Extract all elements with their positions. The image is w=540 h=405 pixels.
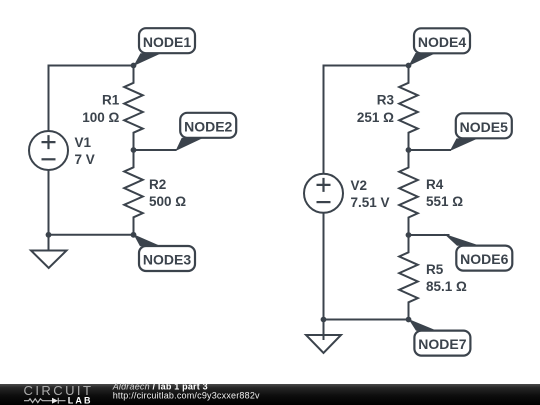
tail NODE4 xyxy=(409,53,437,66)
resistor R4 xyxy=(399,150,418,235)
svg-text:NODE3: NODE3 xyxy=(143,252,191,268)
value label R2 xyxy=(149,177,186,209)
junction node NODE6 xyxy=(406,232,412,238)
junction node NODE7 xyxy=(406,317,412,323)
tail NODE3 xyxy=(134,234,162,246)
svg-text:R3: R3 xyxy=(377,93,395,108)
tail NODE5 xyxy=(450,138,478,151)
CircuitLab logo schematic squiggle xyxy=(24,398,66,404)
wire V1 bottom to ground rail xyxy=(49,171,134,235)
ground (left) xyxy=(31,235,67,268)
node NODE6 label xyxy=(456,246,512,271)
junction node NODE3 xyxy=(131,232,137,238)
svg-text:7.51 V: 7.51 V xyxy=(351,195,390,210)
svg-text:R4: R4 xyxy=(426,177,444,192)
tail NODE6 xyxy=(444,234,480,246)
tail NODE7 xyxy=(409,319,438,331)
junction node NODE5 xyxy=(406,147,412,153)
svg-text:http://circuitlab.com/c9y3cxxe: http://circuitlab.com/c9y3cxxer882v xyxy=(113,391,260,401)
resistor R5 xyxy=(399,235,418,320)
svg-text:NODE2: NODE2 xyxy=(184,118,232,134)
wire NODE5 stub xyxy=(409,149,452,151)
junction ground right xyxy=(321,317,327,323)
voltage source V2 xyxy=(304,174,343,213)
node NODE1 label xyxy=(139,28,195,53)
svg-text:NODE6: NODE6 xyxy=(460,251,508,267)
svg-text:251 Ω: 251 Ω xyxy=(357,110,394,125)
footer bar xyxy=(0,384,540,405)
voltage source V1 xyxy=(29,131,68,170)
junction ground left xyxy=(46,232,52,238)
node NODE3 label xyxy=(139,246,195,271)
resistor R2 xyxy=(124,150,143,235)
wire V2 bottom to ground rail xyxy=(324,213,409,319)
value label V2 xyxy=(351,178,390,210)
node NODE4 label xyxy=(414,28,470,53)
node NODE7 label xyxy=(414,331,470,356)
node NODE5 label xyxy=(456,113,512,138)
svg-text:NODE1: NODE1 xyxy=(143,34,191,50)
value label R5 xyxy=(426,262,467,294)
junction node NODE2 xyxy=(131,147,137,153)
svg-text:100 Ω: 100 Ω xyxy=(82,110,119,125)
value label R3 xyxy=(357,93,395,126)
CircuitLab logo diode xyxy=(52,398,58,404)
wire V2 top to NODE4 xyxy=(324,66,409,174)
svg-text:R1: R1 xyxy=(102,92,120,107)
resistor R1 xyxy=(124,66,143,151)
svg-text:551 Ω: 551 Ω xyxy=(426,194,463,209)
svg-text:7 V: 7 V xyxy=(75,152,95,167)
tail NODE1 xyxy=(134,53,162,66)
svg-text:NODE5: NODE5 xyxy=(460,119,508,135)
svg-text:R2: R2 xyxy=(149,177,166,192)
tail NODE2 xyxy=(176,138,204,151)
svg-text:500 Ω: 500 Ω xyxy=(149,194,186,209)
wire NODE6 stub xyxy=(409,234,450,236)
svg-text:V1: V1 xyxy=(75,135,92,150)
junction node NODE1 xyxy=(131,63,137,69)
value label R4 xyxy=(426,177,463,209)
svg-text:85.1 Ω: 85.1 Ω xyxy=(426,279,467,294)
svg-text:R5: R5 xyxy=(426,262,444,277)
wire V1 top to NODE1 xyxy=(49,66,134,131)
value label R1 xyxy=(82,92,120,125)
node NODE2 label xyxy=(180,113,236,138)
value label V1 xyxy=(75,135,95,167)
ground (right) xyxy=(306,320,341,354)
wire NODE2 stub xyxy=(134,149,177,151)
svg-text:V2: V2 xyxy=(351,178,368,193)
junction node NODE4 xyxy=(406,63,412,69)
svg-text:LAB: LAB xyxy=(68,396,93,405)
svg-text:NODE4: NODE4 xyxy=(418,34,466,50)
svg-text:NODE7: NODE7 xyxy=(418,336,466,352)
resistor R3 xyxy=(399,66,418,151)
